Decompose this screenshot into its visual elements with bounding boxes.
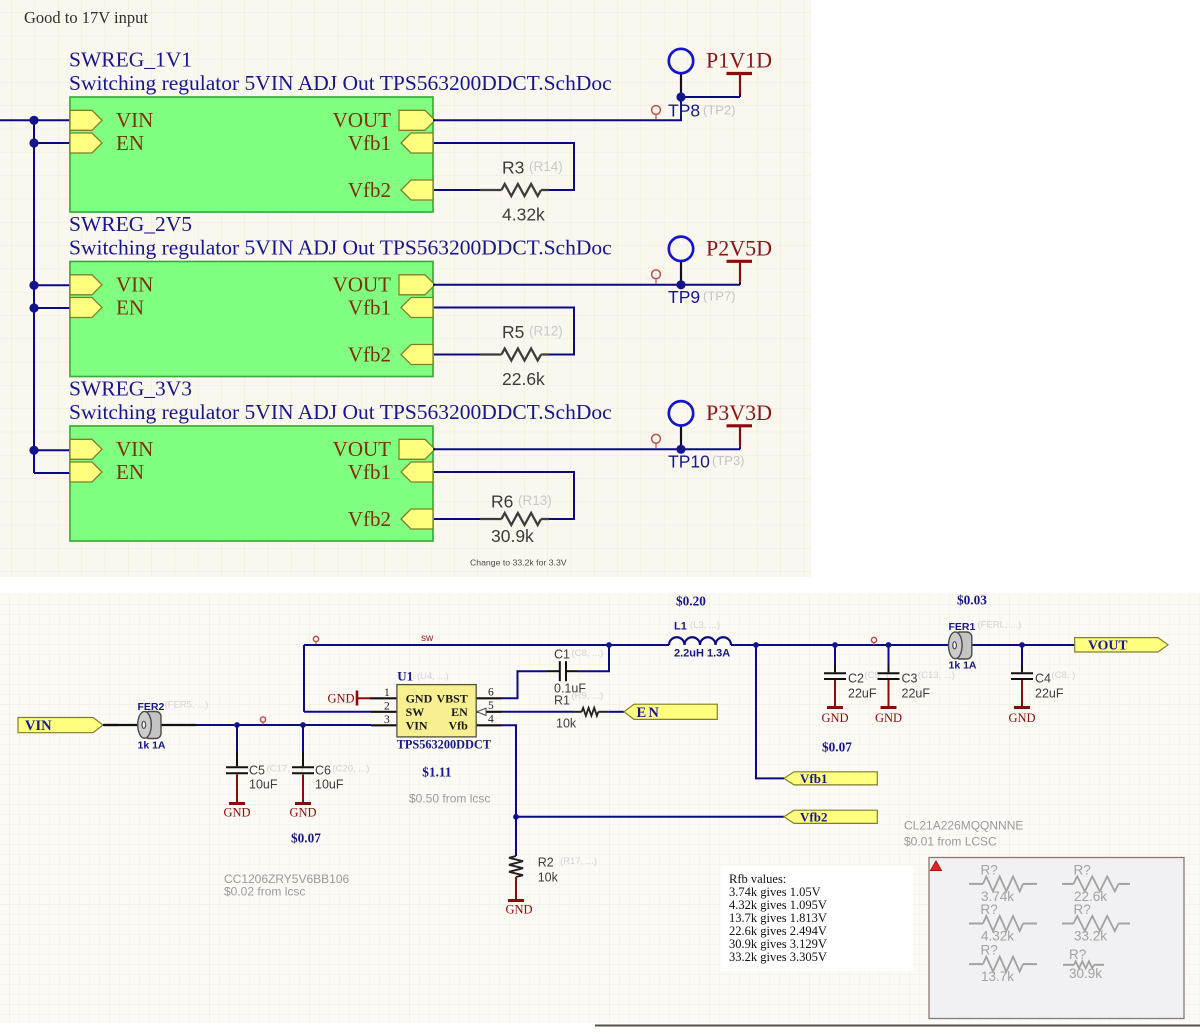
capacitor C6 bottom lead [302, 775, 304, 803]
svg-text:GND: GND [406, 692, 433, 706]
junction R2 tap [513, 814, 519, 820]
svg-text:U1: U1 [397, 669, 413, 684]
svg-text:TP8: TP8 [668, 101, 700, 121]
wire to VIN of SWREG_3V3 [34, 449, 70, 451]
sheet entry VIN of SWREG_2V5 [70, 275, 102, 295]
wire VOUT rail [731, 644, 1075, 646]
capacitor C4 bottom lead [1021, 680, 1023, 707]
svg-text:EN: EN [116, 295, 144, 319]
svg-text:sw: sw [421, 633, 434, 644]
svg-text:VBST: VBST [436, 692, 467, 706]
junction VIN bus row3 [29, 446, 38, 455]
svg-text:Rfb values:: Rfb values: [729, 872, 786, 886]
spare resistor R? 33.2k [1062, 923, 1074, 925]
port Vfb2 [784, 810, 877, 823]
svg-text:(FERL, ...): (FERL, ...) [978, 620, 1022, 631]
svg-text:10k: 10k [538, 871, 559, 885]
resistor R5 zigzag [502, 349, 542, 361]
op-amp regulator U1 body [397, 685, 476, 737]
svg-text:(TP7): (TP7) [703, 288, 736, 303]
wire to EN of SWREG_3V3 [34, 472, 70, 474]
svg-text:SWREG_3V3: SWREG_3V3 [69, 377, 192, 401]
test point TP8 pin [680, 73, 682, 97]
junction VIN bus row2 [29, 281, 38, 290]
svg-text:(R12): (R12) [529, 324, 563, 339]
pin 2 stub of U1 [371, 711, 397, 713]
ground bar below C3 [881, 706, 897, 709]
resistor R3 zigzag [502, 184, 542, 196]
svg-text:(C8, ...): (C8, ...) [572, 648, 604, 659]
svg-text:TP10: TP10 [668, 452, 710, 472]
svg-text:Vfb2: Vfb2 [800, 809, 827, 824]
sheet entry EN of SWREG_2V5 [70, 298, 102, 318]
junction C6 [300, 722, 306, 728]
svg-text:R?: R? [981, 862, 998, 877]
resistor R1 leads [573, 711, 582, 713]
svg-text:P2V5D: P2V5D [706, 235, 772, 260]
svg-text:EN: EN [451, 705, 468, 719]
no-ERC marker near TP10 [652, 434, 661, 443]
wire U1 pin 2 to SW rail [304, 711, 371, 713]
svg-text:$1.11: $1.11 [422, 765, 451, 780]
junction C2 on VOUT rail [832, 642, 838, 648]
svg-text:C1: C1 [554, 648, 570, 662]
svg-text:22uF: 22uF [848, 687, 877, 701]
bottom schematic sheet background [0, 594, 1200, 1023]
no-ERC marker on SW rail [313, 636, 318, 641]
svg-text:(TP2): (TP2) [703, 103, 736, 118]
svg-text:(U4, ...): (U4, ...) [417, 671, 449, 682]
svg-text:$0.07: $0.07 [822, 740, 852, 755]
spare resistor R? 22.6k [1062, 883, 1074, 885]
junction C5 [234, 722, 240, 728]
capacitor C5 bottom lead [236, 775, 238, 803]
pin 5 stub of U1 [475, 711, 501, 713]
svg-text:22.6k: 22.6k [502, 369, 545, 389]
port VOUT [1075, 638, 1168, 652]
pin 4 stub of U1 [475, 724, 501, 726]
sheet entry VIN of SWREG_3V3 [70, 439, 102, 459]
svg-text:P1V1D: P1V1D [706, 48, 772, 73]
junction EN bus row1 [29, 138, 38, 147]
svg-text:Vfb1: Vfb1 [348, 295, 391, 319]
svg-text:13.7k: 13.7k [981, 969, 1014, 984]
resistor R6 leads [480, 518, 502, 520]
junction test point TP9 [676, 280, 685, 289]
svg-text:GND: GND [875, 711, 902, 725]
capacitor C4 plates [1011, 672, 1033, 674]
wire vertical VIN/EN bus [33, 120, 35, 473]
svg-text:Vfb1: Vfb1 [800, 771, 827, 786]
capacitor C3 plates [878, 672, 900, 674]
wire Vfb1 feedback loop SWREG_2V5 [434, 308, 574, 355]
ferrite bead FER1 body [949, 632, 972, 659]
svg-text:R3: R3 [502, 158, 524, 178]
svg-text:(C8, ): (C8, ) [1052, 670, 1076, 681]
svg-text:GND: GND [289, 806, 316, 820]
svg-text:(L3, ...): (L3, ...) [690, 620, 720, 631]
ferrite FER2 leads [104, 724, 196, 726]
svg-text:VIN: VIN [116, 437, 153, 461]
svg-text:EN: EN [116, 131, 144, 155]
sheet entry Vfb2 of SWREG_3V3 [401, 509, 433, 529]
svg-text:Vfb2: Vfb2 [348, 178, 391, 202]
svg-text:R?: R? [1074, 902, 1091, 917]
capacitor C1 left lead [547, 670, 559, 672]
power port P2V5D bar [727, 260, 753, 263]
no-ERC marker near TP8 [652, 106, 661, 115]
svg-text:VOUT: VOUT [333, 108, 391, 132]
svg-text:1k 1A: 1k 1A [949, 660, 977, 672]
wire to EN of SWREG_1V1 [34, 142, 70, 144]
resistor R5 leads [480, 353, 502, 355]
svg-text:R6: R6 [491, 492, 513, 512]
svg-text:CL21A226MQQNNNE: CL21A226MQQNNNE [904, 819, 1023, 833]
power port P3V3D bar [727, 424, 753, 427]
junction C1 on SW rail [606, 642, 612, 648]
svg-text:VIN: VIN [25, 718, 52, 734]
ground bar below C5 [229, 802, 245, 805]
wire FER2 to U1 pin 3 [196, 724, 371, 726]
ground bar below C2 [827, 706, 843, 709]
svg-text:Switching regulator 5VIN ADJ O: Switching regulator 5VIN ADJ Out TPS5632… [69, 400, 612, 424]
power port P2V5D stem [739, 263, 741, 282]
power port P1V1D bar [727, 72, 753, 75]
wire test point TP8 down to VOUT wire [680, 97, 682, 120]
svg-text:10uF: 10uF [249, 778, 278, 792]
svg-text:30.9k: 30.9k [1069, 966, 1102, 981]
text frame Rfb values [721, 866, 914, 971]
svg-text:6: 6 [488, 687, 494, 699]
red triangle marker [931, 861, 942, 871]
junction test point TP10 [676, 445, 685, 454]
wire VOUT of SWREG_1V1 [433, 97, 681, 120]
svg-text:VIN: VIN [116, 108, 153, 132]
svg-text:Change to 33.2k for 3.3V: Change to 33.2k for 3.3V [470, 558, 567, 568]
spare resistor R? 13.7k [969, 963, 983, 965]
resistor R2 zigzag [509, 856, 523, 877]
svg-text:(R9, ...): (R9, ...) [572, 691, 604, 702]
svg-text:Good to 17V input: Good to 17V input [24, 8, 148, 27]
svg-text:$0.03: $0.03 [957, 593, 987, 608]
capacitor C2 plates [824, 672, 846, 674]
svg-text:1: 1 [384, 687, 390, 699]
svg-text:R?: R? [981, 902, 998, 917]
svg-text:4: 4 [488, 714, 494, 726]
svg-text:Vfb1: Vfb1 [348, 460, 391, 484]
svg-text:EN: EN [116, 460, 144, 484]
capacitor C1 right lead [566, 670, 578, 672]
power port P3V3D stem [739, 427, 741, 446]
wire Vfb1 feedback loop SWREG_1V1 [434, 143, 574, 190]
svg-text:(C20, ...): (C20, ...) [333, 764, 370, 775]
svg-text:VIN: VIN [116, 273, 153, 297]
capacitor C6 plates [292, 766, 314, 768]
wire pin 4 to Vfb2 port [502, 725, 785, 817]
sheet entry VOUT of SWREG_2V5 [399, 275, 435, 295]
capacitor C5 plates [226, 766, 248, 768]
wire R1 to EN port [608, 711, 624, 713]
svg-text:SWREG_1V1: SWREG_1V1 [69, 48, 192, 72]
sheet entry VOUT of SWREG_1V1 [399, 110, 435, 130]
capacitor C3 bottom lead [888, 680, 890, 707]
top schematic sheet background [0, 0, 811, 577]
svg-text:(FER5, ...): (FER5, ...) [165, 700, 209, 711]
no-ERC marker near TP9 [652, 270, 661, 279]
spare resistor R? 30.9k [1063, 964, 1074, 966]
ground bar below C6 [295, 802, 311, 805]
resistor R3 leads [480, 189, 502, 191]
svg-text:13.7k gives 1.813V: 13.7k gives 1.813V [729, 911, 827, 925]
wire Vfb2 to resistor R3 [434, 189, 480, 191]
svg-text:VIN: VIN [406, 719, 428, 733]
wire VOUT of SWREG_2V5 [433, 284, 740, 286]
inductor L1 [669, 637, 731, 645]
wire Vfb1 feedback loop SWREG_3V3 [434, 472, 574, 519]
svg-text:22uF: 22uF [1035, 687, 1064, 701]
ground bar below R2 [508, 899, 524, 902]
spare resistor R? 4.32k [969, 923, 983, 925]
capacitor C6 top lead [302, 725, 304, 752]
svg-text:10uF: 10uF [315, 778, 344, 792]
svg-text:C4: C4 [1035, 672, 1051, 686]
capacitor C2 top lead [834, 645, 836, 665]
svg-text:3: 3 [384, 714, 390, 726]
svg-text:Switching regulator 5VIN ADJ O: Switching regulator 5VIN ADJ Out TPS5632… [69, 71, 612, 95]
pin 1 stub of U1 [370, 697, 397, 699]
capacitor C1 plates [559, 661, 561, 681]
svg-text:Vfb1: Vfb1 [348, 131, 391, 155]
sheet entry Vfb2 of SWREG_2V5 [401, 345, 433, 365]
svg-text:R2: R2 [538, 856, 554, 870]
svg-text:R?: R? [1074, 862, 1091, 877]
test point TP9 pin [680, 261, 682, 285]
pin 6 stub of U1 [475, 697, 501, 699]
sheet symbol SWREG_3V3 body [70, 426, 433, 541]
sheet entry Vfb1 of SWREG_2V5 [401, 298, 433, 318]
sheet symbol SWREG_2V5 body [70, 262, 433, 377]
sheet entry Vfb1 of SWREG_3V3 [401, 462, 433, 482]
sheet entry EN of SWREG_1V1 [70, 133, 102, 153]
junction C3 on VOUT rail [886, 642, 892, 648]
spare resistor R? 3.74k [969, 883, 983, 885]
svg-text:VOUT: VOUT [333, 273, 391, 297]
svg-text:C5: C5 [249, 764, 265, 778]
sheet entry Vfb1 of SWREG_1V1 [401, 133, 433, 153]
svg-text:33.2k gives 3.305V: 33.2k gives 3.305V [729, 950, 827, 964]
svg-text:(R13): (R13) [518, 493, 552, 508]
wire to EN of SWREG_2V5 [34, 307, 70, 309]
svg-text:$0.02 from lcsc: $0.02 from lcsc [224, 885, 305, 899]
svg-text:TPS563200DDCT: TPS563200DDCT [397, 737, 492, 751]
sheet symbol SWREG_1V1 body [70, 97, 433, 212]
svg-text:R1: R1 [554, 693, 570, 707]
svg-text:2.2uH 1.3A: 2.2uH 1.3A [674, 648, 730, 660]
no-ERC marker on VIN wire [260, 717, 265, 722]
svg-text:GND: GND [821, 711, 848, 725]
svg-text:$0.20: $0.20 [676, 594, 706, 609]
svg-text:Vfb: Vfb [448, 719, 468, 733]
svg-text:$0.07: $0.07 [291, 831, 321, 846]
junction EN bus row2 [29, 303, 38, 312]
no-ERC marker on VOUT rail [871, 637, 876, 642]
capacitor C4 top lead [1021, 645, 1023, 665]
svg-text:4.32k: 4.32k [981, 929, 1014, 944]
svg-text:4.32k gives 1.095V: 4.32k gives 1.095V [729, 898, 827, 912]
svg-text:$0.50 from lcsc: $0.50 from lcsc [409, 792, 490, 806]
svg-text:R?: R? [981, 943, 998, 958]
pin 5 input triangle [477, 708, 486, 715]
junction Vfb1 on VOUT rail [753, 642, 759, 648]
test point TP9 ring [669, 237, 693, 261]
sheet entry VIN of SWREG_1V1 [70, 110, 102, 130]
capacitor C2 bottom lead [834, 680, 836, 707]
bottom sheet border line [595, 1025, 1200, 1027]
svg-text:VOUT: VOUT [333, 437, 391, 461]
wire VIN port to ferrite FER2 [103, 724, 118, 726]
svg-text:GND: GND [1008, 711, 1035, 725]
svg-text:3.74k gives 1.05V: 3.74k gives 1.05V [729, 885, 821, 899]
svg-text:C2: C2 [848, 672, 864, 686]
svg-text:P3V3D: P3V3D [706, 400, 772, 425]
ferrite bead FER2 body [138, 711, 161, 738]
svg-text:(TP3): (TP3) [712, 453, 745, 468]
svg-text:SW: SW [406, 705, 425, 719]
svg-text:TP9: TP9 [668, 287, 700, 307]
svg-text:30.9k gives 3.129V: 30.9k gives 3.129V [729, 937, 827, 951]
port EN [624, 704, 717, 719]
test point TP8 ring [669, 49, 693, 73]
wire C1 to SW rail [578, 645, 609, 671]
wire to VIN of SWREG_2V5 [34, 284, 70, 286]
svg-text:FER2: FER2 [138, 701, 165, 713]
svg-text:22.6k gives 2.494V: 22.6k gives 2.494V [729, 924, 827, 938]
junction C4 on VOUT rail [1019, 642, 1025, 648]
test point TP10 pin [680, 425, 682, 449]
resistor R1 zigzag [582, 708, 599, 716]
wire pin 5 to R1 [502, 711, 573, 713]
svg-text:(R14): (R14) [529, 159, 563, 174]
capacitor C5 top lead [236, 725, 238, 752]
junction test point TP8 [676, 92, 685, 101]
svg-text:1k 1A: 1k 1A [138, 740, 166, 752]
resistor R2 bottom lead [515, 877, 517, 900]
svg-text:EN: EN [637, 705, 662, 721]
resistor R6 zigzag [502, 513, 542, 525]
pin 3 stub of U1 [371, 724, 397, 726]
clipboard preview box [929, 858, 1184, 1019]
svg-text:SWREG_2V5: SWREG_2V5 [69, 212, 192, 236]
sheet entry Vfb2 of SWREG_1V1 [401, 180, 433, 200]
svg-text:GND: GND [328, 692, 355, 706]
wire Vfb2 to resistor R5 [434, 354, 480, 356]
svg-text:Vfb2: Vfb2 [348, 342, 391, 366]
sheet entry EN of SWREG_3V3 [70, 462, 102, 482]
svg-text:(C13, ...): (C13, ...) [918, 670, 955, 681]
svg-text:L1: L1 [674, 621, 687, 633]
capacitor C3 top lead [888, 645, 890, 665]
svg-text:GND: GND [223, 806, 250, 820]
wire SW rail [304, 644, 669, 646]
wire junction to R2 [515, 817, 517, 856]
sheet entry VOUT of SWREG_3V3 [399, 439, 435, 459]
svg-text:5: 5 [488, 700, 494, 712]
svg-text:2: 2 [384, 701, 390, 713]
test point TP10 ring [669, 401, 693, 425]
port Vfb1 [784, 772, 877, 785]
svg-text:C3: C3 [902, 672, 918, 686]
svg-text:Switching regulator 5VIN ADJ O: Switching regulator 5VIN ADJ Out TPS5632… [69, 236, 612, 260]
svg-text:R5: R5 [502, 322, 524, 342]
svg-text:33.2k: 33.2k [1074, 929, 1107, 944]
wire VIN input from left edge [0, 119, 70, 121]
port VIN [18, 718, 103, 733]
svg-text:10k: 10k [556, 717, 577, 731]
wire branch to power port P1V1D [681, 96, 740, 98]
junction VIN bus row1 [29, 116, 38, 125]
svg-text:$0.01 from LCSC: $0.01 from LCSC [904, 835, 997, 849]
power port P1V1D stem [739, 75, 741, 94]
svg-text:FER1: FER1 [949, 621, 976, 633]
svg-text:30.9k: 30.9k [491, 526, 534, 546]
svg-text:22uF: 22uF [902, 687, 931, 701]
svg-text:Vfb2: Vfb2 [348, 507, 391, 531]
wire VBST pin 6 to C1 [502, 671, 548, 698]
wire VOUT of SWREG_3V3 [433, 448, 740, 450]
svg-text:4.32k: 4.32k [502, 205, 545, 225]
wire Vfb1 from VOUT rail [756, 645, 784, 778]
svg-text:(R17, ...): (R17, ...) [560, 856, 597, 867]
svg-text:C6: C6 [315, 764, 331, 778]
svg-text:R?: R? [1069, 947, 1086, 962]
svg-text:VOUT: VOUT [1088, 638, 1128, 653]
wire Vfb2 to resistor R6 [434, 518, 480, 520]
svg-text:GND: GND [505, 903, 532, 917]
ground bar below C4 [1014, 706, 1030, 709]
